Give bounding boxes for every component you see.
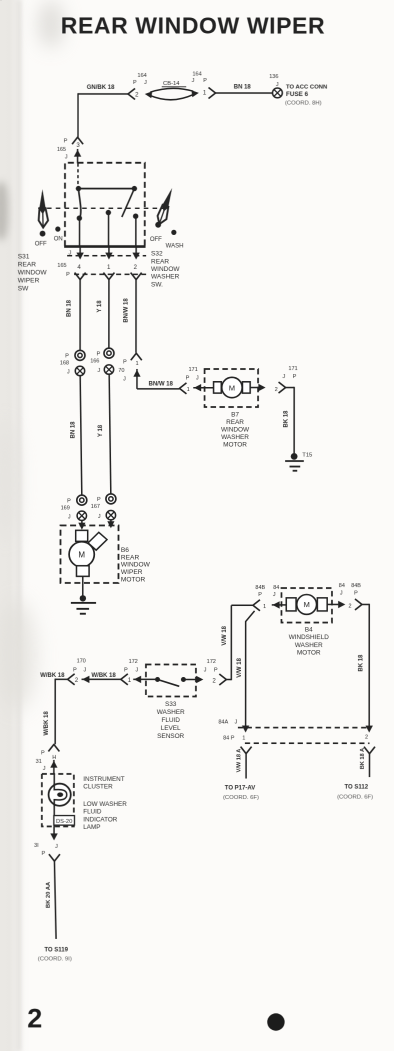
svg-text:P: P [133, 80, 137, 86]
svg-text:P: P [67, 498, 71, 504]
svg-text:W/BK 18: W/BK 18 [91, 673, 116, 679]
svg-text:84B: 84B [255, 585, 265, 591]
svg-text:CLUSTER: CLUSTER [83, 784, 113, 791]
svg-text:WINDOW: WINDOW [121, 562, 151, 569]
svg-text:1: 1 [128, 678, 132, 684]
svg-text:J: J [204, 667, 207, 673]
svg-text:BK 18: BK 18 [359, 654, 365, 672]
svg-text:P: P [97, 351, 101, 357]
svg-text:V/W 18: V/W 18 [222, 625, 228, 645]
svg-text:2: 2 [275, 387, 278, 393]
svg-text:J: J [276, 82, 279, 88]
svg-text:1: 1 [136, 361, 139, 367]
svg-text:165: 165 [57, 147, 66, 153]
svg-text:WINDOW: WINDOW [151, 266, 180, 273]
svg-text:Y 18: Y 18 [98, 424, 104, 437]
svg-text:2: 2 [27, 1003, 42, 1033]
svg-text:2: 2 [348, 604, 351, 610]
svg-text:31: 31 [36, 759, 42, 765]
svg-text:136: 136 [269, 74, 278, 80]
svg-text:S32: S32 [151, 251, 163, 258]
svg-text:84A: 84A [218, 719, 228, 725]
svg-text:2: 2 [134, 265, 138, 271]
svg-text:P: P [354, 591, 358, 597]
svg-text:P: P [258, 592, 262, 598]
svg-text:(COORD. 6F): (COORD. 6F) [223, 795, 259, 801]
svg-text:CB-14: CB-14 [163, 81, 180, 87]
svg-text:171: 171 [189, 367, 198, 373]
svg-text:WINDSHIELD: WINDSHIELD [289, 634, 330, 641]
svg-text:165: 165 [57, 263, 66, 269]
svg-text:P: P [124, 667, 128, 673]
svg-text:84: 84 [273, 585, 279, 591]
svg-text:(COORD. 8H): (COORD. 8H) [285, 100, 322, 106]
svg-text:3I: 3I [34, 843, 39, 849]
svg-text:V/W 18 A: V/W 18 A [236, 749, 242, 773]
svg-text:REAR: REAR [121, 554, 140, 561]
svg-text:BK 18: BK 18 [283, 410, 289, 428]
svg-text:2: 2 [212, 678, 216, 684]
svg-text:INSTRUMENT: INSTRUMENT [83, 776, 124, 783]
svg-text:168: 168 [60, 361, 69, 367]
svg-text:M: M [304, 600, 310, 609]
svg-text:J: J [192, 78, 195, 84]
svg-text:1: 1 [187, 387, 190, 393]
svg-text:BN/W 18: BN/W 18 [149, 382, 174, 388]
svg-text:J: J [196, 375, 199, 381]
svg-text:J: J [282, 374, 285, 380]
svg-text:B6: B6 [121, 547, 129, 554]
svg-text:W/BK 18: W/BK 18 [44, 711, 50, 736]
svg-text:J: J [123, 376, 126, 382]
svg-text:169: 169 [61, 505, 70, 511]
svg-text:S31: S31 [18, 254, 30, 261]
svg-text:P: P [203, 78, 207, 84]
svg-text:BN 18: BN 18 [70, 421, 76, 439]
svg-text:P: P [64, 138, 68, 144]
svg-text:J: J [234, 719, 237, 725]
svg-text:4: 4 [77, 265, 81, 271]
svg-text:WASHER: WASHER [157, 709, 185, 716]
svg-text:WASH: WASH [166, 243, 184, 249]
svg-text:M: M [229, 383, 235, 392]
svg-text:84: 84 [339, 583, 345, 589]
svg-text:BN/W 18: BN/W 18 [124, 298, 130, 323]
svg-text:BK 18 A: BK 18 A [360, 748, 366, 769]
svg-text:J: J [69, 250, 72, 256]
svg-text:WASHER: WASHER [295, 642, 323, 649]
svg-text:167: 167 [91, 504, 100, 510]
svg-text:170: 170 [77, 658, 86, 664]
svg-text:WIPER: WIPER [18, 278, 40, 285]
svg-text:V/W 18: V/W 18 [237, 657, 243, 677]
svg-text:164: 164 [192, 71, 201, 77]
svg-text:166: 166 [90, 358, 99, 364]
svg-text:70: 70 [118, 368, 124, 374]
svg-text:1: 1 [263, 604, 266, 610]
svg-text:1: 1 [203, 91, 207, 97]
svg-text:S33: S33 [165, 701, 177, 708]
svg-text:164: 164 [138, 73, 147, 79]
svg-text:1: 1 [107, 265, 111, 271]
svg-text:TO ACC CONN: TO ACC CONN [286, 84, 327, 90]
svg-text:GN/BK 18: GN/BK 18 [87, 85, 115, 91]
svg-text:2: 2 [365, 734, 368, 740]
svg-text:172: 172 [129, 659, 138, 665]
svg-text:P: P [41, 751, 45, 757]
svg-text:P: P [66, 272, 70, 278]
svg-text:T15: T15 [302, 453, 312, 459]
svg-text:J: J [340, 591, 343, 597]
svg-text:MOTOR: MOTOR [297, 649, 321, 656]
svg-text:WASHER: WASHER [151, 274, 180, 281]
svg-text:WASHER: WASHER [221, 434, 249, 441]
svg-text:TO S112: TO S112 [344, 784, 368, 790]
svg-text:TO P17-AV: TO P17-AV [225, 785, 255, 791]
svg-text:J: J [43, 766, 46, 772]
svg-text:WINDOW: WINDOW [221, 427, 250, 434]
svg-text:3: 3 [76, 143, 80, 149]
svg-text:WIPER: WIPER [121, 569, 143, 576]
svg-text:P: P [214, 668, 218, 674]
svg-text:J: J [65, 154, 68, 160]
svg-text:P: P [65, 354, 69, 360]
svg-text:2: 2 [75, 678, 79, 684]
svg-text:W/BK 18: W/BK 18 [40, 673, 65, 679]
svg-text:J: J [273, 592, 276, 598]
svg-text:SW.: SW. [151, 281, 163, 288]
svg-text:(COORD. 9I): (COORD. 9I) [38, 956, 72, 962]
svg-text:FLUID: FLUID [83, 809, 102, 816]
svg-text:SW: SW [18, 286, 29, 293]
svg-text:BN 18: BN 18 [67, 299, 73, 317]
svg-text:84B: 84B [351, 583, 361, 589]
svg-text:171: 171 [288, 366, 297, 372]
svg-text:BK 20 AA: BK 20 AA [46, 881, 52, 908]
svg-text:J: J [67, 370, 70, 376]
svg-text:REAR: REAR [151, 258, 169, 265]
svg-text:172: 172 [207, 659, 216, 665]
svg-text:P: P [123, 359, 127, 365]
svg-text:Y 18: Y 18 [97, 300, 103, 313]
svg-text:OFF: OFF [35, 242, 47, 248]
svg-text:J: J [135, 667, 138, 673]
svg-text:SENSOR: SENSOR [157, 733, 184, 740]
svg-text:(COORD. 6F): (COORD. 6F) [337, 794, 373, 800]
svg-text:2: 2 [135, 92, 139, 98]
svg-text:J: J [55, 844, 58, 850]
svg-text:WINDOW: WINDOW [18, 270, 48, 277]
svg-text:BN 18: BN 18 [234, 85, 252, 91]
svg-text:P: P [293, 374, 297, 380]
svg-text:ON: ON [54, 236, 63, 242]
svg-text:MOTOR: MOTOR [223, 442, 247, 449]
svg-text:FUSE 6: FUSE 6 [286, 91, 309, 98]
svg-text:INDICATOR: INDICATOR [83, 816, 118, 823]
svg-text:P: P [42, 851, 46, 857]
svg-text:J: J [144, 80, 147, 86]
svg-text:REAR: REAR [226, 419, 244, 426]
svg-text:P: P [186, 375, 190, 381]
svg-text:J: J [97, 368, 100, 374]
svg-text:REAR WINDOW WIPER: REAR WINDOW WIPER [61, 12, 325, 38]
svg-text:LOW WASHER: LOW WASHER [83, 801, 127, 808]
svg-text:FLUID: FLUID [161, 717, 180, 724]
svg-text:TO S119: TO S119 [44, 948, 68, 954]
svg-text:OFF: OFF [150, 237, 162, 243]
svg-text:1: 1 [242, 735, 245, 741]
svg-text:84 P: 84 P [223, 736, 235, 742]
svg-text:REAR: REAR [18, 262, 37, 269]
svg-text:M: M [78, 550, 85, 559]
svg-text:LEVEL: LEVEL [161, 725, 181, 732]
svg-text:B4: B4 [305, 627, 313, 634]
svg-text:J: J [98, 514, 101, 520]
svg-text:J: J [83, 667, 86, 673]
svg-text:DS-20: DS-20 [56, 819, 72, 825]
svg-text:LAMP: LAMP [83, 824, 100, 831]
svg-text:J: J [68, 514, 71, 520]
svg-text:MOTOR: MOTOR [121, 577, 146, 584]
svg-text:B7: B7 [231, 411, 239, 418]
svg-text:P: P [73, 667, 77, 673]
svg-text:P: P [97, 497, 101, 503]
